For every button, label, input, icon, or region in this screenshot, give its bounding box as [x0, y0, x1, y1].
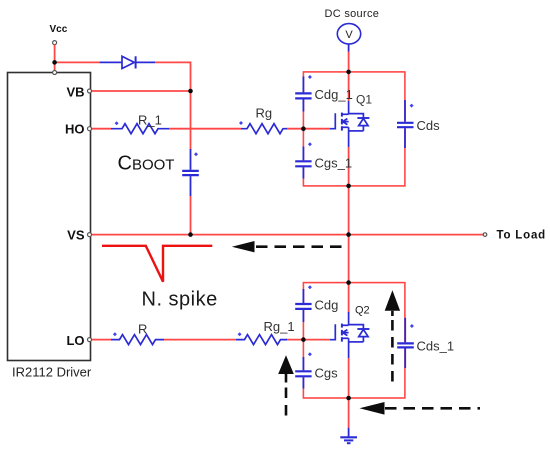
- pin label VS: [67, 228, 85, 243]
- label Cdg: [315, 298, 339, 313]
- svg-text:CBOOT: CBOOT: [118, 153, 175, 175]
- capacitor Cgs_1: [295, 147, 311, 179]
- label Cgs_1: [315, 155, 353, 170]
- label N. spike: [142, 289, 218, 311]
- svg-text:R: R: [138, 322, 147, 337]
- capacitor Cds_1: [397, 318, 414, 368]
- label DC source: [325, 8, 380, 20]
- pin marker Cgs: [308, 352, 312, 356]
- pin marker Cgs_1: [308, 142, 312, 146]
- svg-text:Q2: Q2: [355, 304, 370, 316]
- source V1 DC source circle: [337, 24, 360, 52]
- pin marker CBOOT: [194, 152, 198, 156]
- label Rg: [256, 106, 273, 121]
- pin label VB: [66, 84, 84, 99]
- junction Q1 drain node: [346, 70, 351, 75]
- terminal To Load: [483, 233, 487, 237]
- label IR2112 Driver: [12, 365, 92, 380]
- pin marker R_1: [115, 121, 119, 125]
- svg-text:R_1: R_1: [138, 113, 162, 128]
- svg-text:Q1: Q1: [356, 92, 372, 106]
- resistor Rg_1: [236, 335, 287, 345]
- resistor Rg: [241, 124, 287, 134]
- label Cgs: [315, 366, 339, 381]
- pin marker Cds: [410, 104, 414, 108]
- svg-text:Rg: Rg: [256, 106, 273, 121]
- junction Q2 gate node: [301, 337, 306, 342]
- pin HO terminal: [88, 127, 92, 131]
- junction Q1 gate node: [301, 126, 306, 131]
- label Q1: [356, 92, 372, 106]
- annotation negative spike waveform: [102, 246, 212, 282]
- wire Rg to Q1 gate node: [287, 128, 304, 130]
- label Cds: [417, 118, 441, 133]
- label CBOOT: [118, 153, 175, 175]
- wire R to Rg_1: [164, 339, 236, 341]
- annotation arrow up through Cds_1: [385, 290, 400, 387]
- wire Q2 gate stub: [303, 339, 330, 341]
- wire VB pin to bus: [92, 90, 191, 92]
- svg-text:DC source: DC source: [325, 8, 380, 20]
- wire LO pin to R: [92, 339, 112, 341]
- svg-text:HO: HO: [65, 121, 85, 136]
- wire R_1 to Rg: [169, 128, 241, 130]
- net label Vcc: [50, 24, 68, 35]
- pin label LO: [66, 333, 84, 348]
- transistor Q1 MOSFET: [330, 101, 369, 147]
- wire DC source to Q1 drain: [348, 52, 350, 102]
- capacitor Cdg: [295, 289, 311, 322]
- terminal Vcc: [53, 41, 57, 45]
- annotation arrow into VS node: [232, 241, 344, 252]
- wire Q1 gate stub: [303, 128, 330, 130]
- svg-text:Cds_1: Cds_1: [417, 339, 455, 354]
- svg-text:VS: VS: [67, 228, 85, 243]
- pin VS terminal: [88, 233, 92, 237]
- svg-text:Cds: Cds: [417, 118, 441, 133]
- svg-text:N. spike: N. spike: [142, 289, 218, 311]
- wire diode cathode to VB bus corner: [155, 62, 191, 91]
- pin marker Rg: [239, 121, 243, 125]
- svg-text:Rg_1: Rg_1: [264, 319, 295, 334]
- pin VB terminal: [88, 89, 92, 93]
- wire VS rail to load: [92, 234, 484, 236]
- svg-text:To Load: To Load: [497, 230, 546, 242]
- label R_1: [138, 113, 162, 128]
- label To Load: [497, 230, 546, 242]
- junction CBOOT VS node: [188, 232, 193, 237]
- pin marker R: [113, 332, 117, 336]
- svg-text:IR2112 Driver: IR2112 Driver: [12, 365, 92, 380]
- ground: [340, 428, 357, 444]
- pin marker Rg_1: [238, 332, 242, 336]
- svg-text:LO: LO: [66, 333, 84, 348]
- diode D1 bootstrap: [100, 56, 155, 68]
- box outline around Q2: [303, 283, 405, 398]
- IC U1 IR2112 driver body: [8, 73, 91, 361]
- wire Vcc vertical: [54, 45, 56, 73]
- svg-text:VB: VB: [66, 84, 84, 99]
- pin marker Cdg_1: [308, 75, 312, 79]
- resistor R_1: [111, 124, 169, 134]
- svg-text:Cgs_1: Cgs_1: [315, 155, 353, 170]
- svg-text:Cdg_1: Cdg_1: [315, 87, 353, 102]
- svg-text:Cdg: Cdg: [315, 298, 339, 313]
- pin Vcc top terminal: [53, 71, 57, 75]
- pin marker Cds_1: [410, 324, 414, 328]
- pin LO terminal: [88, 338, 92, 342]
- junction Vcc node: [52, 60, 57, 65]
- junction Q2 drain node: [346, 280, 351, 285]
- label Rg_1: [264, 319, 295, 334]
- junction VB node: [188, 89, 193, 94]
- wire Rg_1 to Q2 gate node: [287, 339, 304, 341]
- capacitor Cgs: [295, 357, 311, 389]
- svg-text:Vcc: Vcc: [50, 24, 68, 35]
- annotation arrow up into Cgs: [278, 355, 294, 418]
- svg-text:V: V: [345, 29, 353, 41]
- wire Q2 source to ground: [348, 358, 350, 428]
- pin marker Cdg: [308, 285, 312, 289]
- box outline around Q1: [303, 72, 405, 186]
- junction VS main node: [346, 232, 351, 237]
- wire Vcc to diode anode: [55, 61, 100, 63]
- wire HO pin to R_1: [92, 128, 112, 130]
- transistor Q2 MOSFET: [330, 312, 369, 358]
- label R: [138, 322, 147, 337]
- capacitor Cds: [397, 100, 414, 148]
- resistor R: [111, 335, 164, 345]
- svg-text:Cgs: Cgs: [315, 366, 339, 381]
- wire CBOOT to VS: [190, 196, 192, 235]
- pin label HO: [65, 121, 85, 136]
- annotation arrow into ground node: [360, 402, 481, 415]
- junction Q2 source node: [346, 396, 351, 401]
- label Cdg_1: [315, 87, 353, 102]
- capacitor Cdg_1: [295, 77, 311, 112]
- wire Q1 source to Q2 drain: [348, 147, 350, 313]
- label Cds_1: [417, 339, 455, 354]
- junction Q1 source node: [346, 184, 351, 189]
- capacitor CBOOT: [182, 149, 199, 196]
- label Q2: [355, 304, 370, 316]
- wire bus VB to CBOOT: [190, 91, 192, 150]
